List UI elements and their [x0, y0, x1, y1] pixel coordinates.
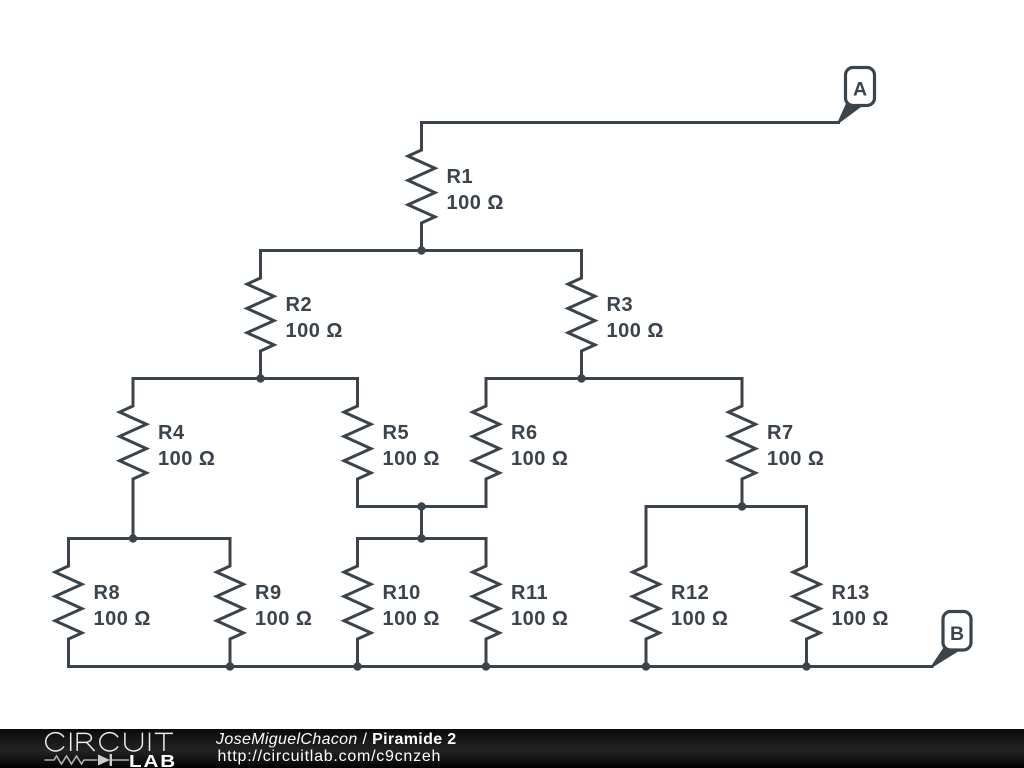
svg-text:R5: R5 [383, 422, 410, 444]
junction [129, 534, 137, 542]
svg-text:R11: R11 [511, 582, 548, 604]
svg-text:100 Ω: 100 Ω [286, 320, 343, 342]
footer bar [0, 729, 1024, 768]
svg-text:100 Ω: 100 Ω [832, 608, 889, 630]
svg-text:100 Ω: 100 Ω [158, 448, 215, 470]
wire top rail to A [422, 121, 839, 124]
logo LAB [129, 753, 177, 768]
svg-text:100 Ω: 100 Ω [511, 608, 568, 630]
junction [256, 374, 264, 382]
footer title line [216, 732, 457, 748]
svg-text:R10: R10 [383, 582, 421, 604]
wire [132, 507, 135, 539]
resistor R13 [793, 539, 889, 667]
resistor R4 [120, 379, 216, 507]
svg-text:100 Ω: 100 Ω [383, 608, 440, 630]
svg-text:R12: R12 [671, 582, 709, 604]
resistor R2 [247, 251, 343, 379]
wire [69, 537, 231, 540]
junction [417, 534, 425, 542]
logo letter I [149, 733, 151, 751]
svg-text:R9: R9 [255, 582, 282, 604]
resistor R7 [729, 379, 825, 507]
logo resistor-diode symbol [45, 754, 130, 766]
resistor R3 [568, 251, 664, 379]
resistor R11 [473, 539, 569, 667]
svg-text:100 Ω: 100 Ω [447, 192, 504, 214]
junction [738, 502, 746, 510]
svg-text:B: B [950, 623, 964, 645]
svg-text:R7: R7 [767, 422, 794, 444]
wire [261, 249, 582, 252]
junction [642, 662, 650, 670]
resistor R6 [473, 379, 569, 507]
svg-text:100 Ω: 100 Ω [94, 608, 151, 630]
junction [577, 374, 585, 382]
junction [802, 662, 810, 670]
resistor R1 [408, 123, 504, 251]
wire [133, 377, 358, 380]
svg-text:100 Ω: 100 Ω [255, 608, 312, 630]
svg-text:100 Ω: 100 Ω [767, 448, 824, 470]
junction [226, 662, 234, 670]
footer url line [218, 749, 442, 765]
wire bottom rail to B [69, 665, 933, 668]
svg-text:100 Ω: 100 Ω [383, 448, 440, 470]
node B [932, 612, 971, 667]
resistor R10 [344, 539, 440, 667]
wire [805, 507, 808, 539]
svg-text:R8: R8 [94, 582, 121, 604]
svg-text:100 Ω: 100 Ω [511, 448, 568, 470]
svg-text:100 Ω: 100 Ω [671, 608, 728, 630]
node A [839, 68, 875, 123]
svg-text:R3: R3 [607, 294, 634, 316]
logo letter C [100, 733, 118, 751]
junction [417, 246, 425, 254]
resistor R5 [344, 379, 440, 507]
wire [358, 537, 487, 540]
svg-text:R13: R13 [832, 582, 870, 604]
logo letter R [77, 733, 94, 751]
svg-text:100 Ω: 100 Ω [607, 320, 664, 342]
junction [482, 662, 490, 670]
junction [417, 502, 425, 510]
svg-text:R2: R2 [286, 294, 313, 316]
resistor R8 [55, 539, 151, 667]
wire [420, 507, 423, 539]
wire [646, 505, 807, 508]
svg-text:R6: R6 [511, 422, 538, 444]
wire [486, 377, 742, 380]
svg-text:A: A [853, 79, 867, 101]
resistor R12 [633, 539, 729, 667]
svg-text:R1: R1 [447, 166, 474, 188]
logo letter U [125, 733, 142, 751]
wire [358, 505, 487, 508]
svg-text:R4: R4 [158, 422, 185, 444]
logo letter I [70, 733, 72, 751]
logo CIRCUIT letter C [46, 733, 64, 751]
resistor R9 [217, 539, 313, 667]
wire [645, 507, 648, 539]
junction [353, 662, 361, 670]
logo letter T [155, 733, 173, 751]
